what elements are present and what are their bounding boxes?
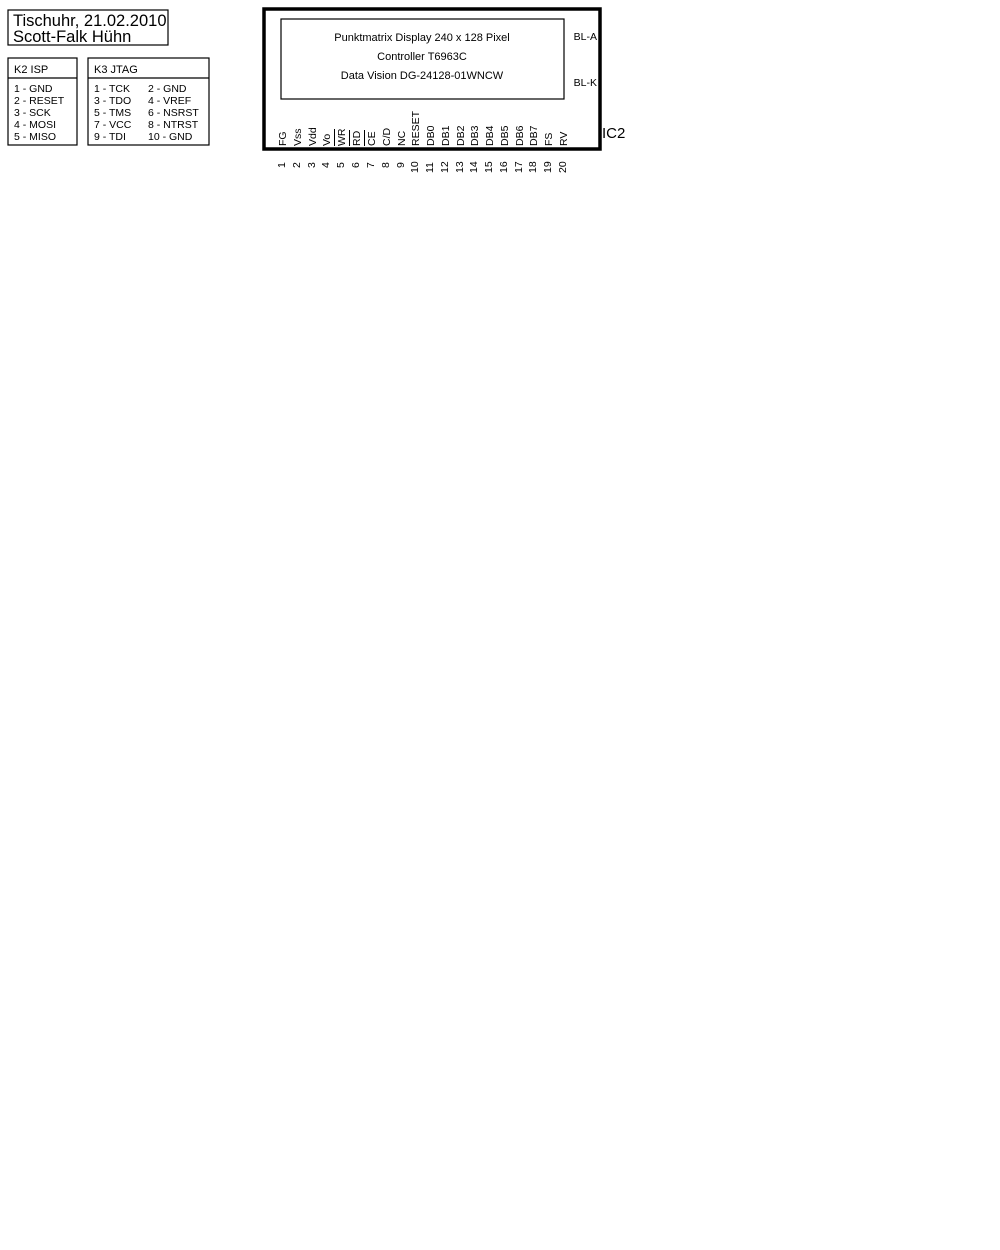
svg-text:WR: WR: [336, 128, 348, 146]
svg-text:12: 12: [439, 161, 451, 173]
svg-text:IC2: IC2: [602, 125, 625, 142]
svg-text:20: 20: [557, 161, 569, 173]
svg-text:19: 19: [542, 161, 554, 173]
svg-text:6 - NSRST: 6 - NSRST: [148, 107, 199, 119]
svg-text:K2 ISP: K2 ISP: [14, 64, 48, 76]
svg-text:14: 14: [468, 161, 480, 173]
svg-text:C/D: C/D: [381, 128, 393, 147]
svg-text:Vss: Vss: [292, 128, 304, 146]
svg-text:2 - RESET: 2 - RESET: [14, 95, 65, 107]
svg-text:8: 8: [380, 162, 392, 168]
svg-text:DB5: DB5: [499, 125, 511, 146]
svg-text:DB2: DB2: [455, 125, 467, 146]
svg-text:RD: RD: [351, 130, 363, 146]
svg-text:4 - VREF: 4 - VREF: [148, 95, 191, 107]
IC2 pin labels (rotated) and pin numbers: [277, 110, 570, 146]
svg-text:3 - TDO: 3 - TDO: [94, 95, 131, 107]
svg-text:DB1: DB1: [440, 125, 452, 146]
svg-text:5: 5: [335, 162, 347, 168]
svg-text:17: 17: [513, 161, 525, 173]
svg-text:NC: NC: [396, 130, 408, 146]
svg-text:10: 10: [409, 161, 421, 173]
svg-text:DB7: DB7: [528, 125, 540, 146]
svg-text:11: 11: [424, 162, 436, 173]
svg-text:9 - TDI: 9 - TDI: [94, 131, 126, 143]
svg-text:FS: FS: [543, 133, 555, 146]
svg-text:Vo: Vo: [321, 134, 333, 146]
svg-text:DB6: DB6: [514, 125, 526, 146]
display module IC2: [264, 9, 600, 149]
svg-text:13: 13: [454, 161, 466, 173]
svg-text:5 - MISO: 5 - MISO: [14, 131, 56, 143]
svg-text:2 - GND: 2 - GND: [148, 83, 187, 95]
svg-text:10 - GND: 10 - GND: [148, 131, 193, 143]
svg-text:3 - SCK: 3 - SCK: [14, 107, 51, 119]
svg-text:BL-K: BL-K: [574, 77, 597, 89]
svg-text:7 - VCC: 7 - VCC: [94, 119, 132, 131]
svg-text:RV: RV: [558, 132, 570, 146]
svg-text:15: 15: [483, 161, 495, 173]
svg-text:DB3: DB3: [469, 125, 481, 146]
svg-text:K3 JTAG: K3 JTAG: [94, 64, 138, 76]
svg-text:9: 9: [395, 162, 407, 168]
svg-text:CE: CE: [366, 131, 378, 146]
svg-text:8 - NTRST: 8 - NTRST: [148, 119, 199, 131]
svg-text:6: 6: [350, 162, 362, 168]
svg-text:FG: FG: [277, 131, 289, 146]
title box: [8, 10, 168, 46]
svg-text:BL-A: BL-A: [574, 31, 597, 43]
svg-text:DB0: DB0: [425, 125, 437, 146]
svg-text:7: 7: [365, 162, 377, 168]
svg-text:RESET: RESET: [410, 110, 422, 146]
svg-text:2: 2: [291, 162, 303, 168]
svg-text:Punktmatrix Display 240 x 128: Punktmatrix Display 240 x 128 Pixel: [334, 32, 509, 44]
svg-text:Vdd: Vdd: [307, 127, 319, 146]
K3 JTAG legend box: [88, 58, 209, 145]
K2 ISP legend box: [8, 58, 77, 145]
svg-text:Scott-Falk Hühn: Scott-Falk Hühn: [13, 28, 131, 46]
svg-text:Controller T6963C: Controller T6963C: [377, 51, 467, 63]
svg-text:4: 4: [320, 162, 332, 168]
svg-text:4 - MOSI: 4 - MOSI: [14, 119, 56, 131]
svg-text:18: 18: [527, 161, 539, 173]
svg-text:3: 3: [306, 162, 318, 168]
svg-text:1: 1: [276, 162, 288, 168]
svg-text:1 - GND: 1 - GND: [14, 83, 53, 95]
svg-text:DB4: DB4: [484, 125, 496, 146]
svg-text:5 - TMS: 5 - TMS: [94, 107, 131, 119]
svg-text:1 - TCK: 1 - TCK: [94, 83, 130, 95]
svg-text:Data Vision DG-24128-01WNCW: Data Vision DG-24128-01WNCW: [341, 70, 504, 82]
svg-text:16: 16: [498, 161, 510, 173]
